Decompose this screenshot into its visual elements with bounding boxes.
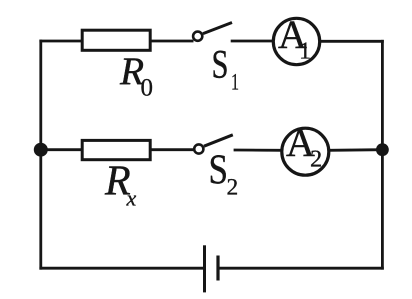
svg-text:x: x [126, 186, 137, 211]
wire S2 to A2 [234, 149, 282, 152]
battery short plate [216, 256, 219, 281]
switch S1 circle [193, 32, 202, 41]
wire A1 to top-right corner [320, 40, 383, 43]
ammeter A2 circle [282, 128, 329, 175]
wire A2 to right junction [329, 148, 383, 151]
wire top-left horizontal [41, 40, 82, 43]
wire S1 to A1 [231, 40, 274, 43]
svg-text:2: 2 [310, 146, 322, 173]
switch S2 lever [204, 135, 233, 146]
svg-text:0: 0 [141, 75, 154, 102]
wire bottom-right [218, 267, 382, 270]
wire left vertical [39, 41, 42, 268]
svg-text:1: 1 [299, 39, 311, 65]
svg-text:2: 2 [227, 175, 239, 201]
switch S1 lever [203, 23, 232, 34]
battery long plate [203, 245, 206, 292]
wire middle-left [41, 148, 82, 151]
ammeter A1 circle [273, 18, 319, 64]
node left junction [34, 143, 48, 157]
wire R0 to S1 [150, 40, 194, 43]
svg-text:S: S [209, 147, 229, 194]
resistor R0 [82, 30, 150, 50]
node right junction [376, 143, 389, 156]
switch S2 circle [194, 144, 203, 153]
resistor Rx [82, 140, 150, 159]
wire bottom-left [41, 267, 205, 270]
svg-text:1: 1 [231, 70, 239, 95]
wire right vertical [381, 41, 384, 268]
svg-text:S: S [212, 42, 229, 87]
wire Rx to S2 [150, 148, 194, 151]
